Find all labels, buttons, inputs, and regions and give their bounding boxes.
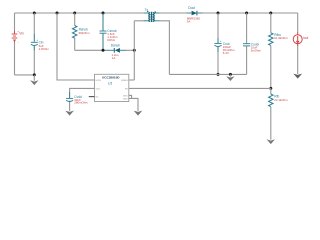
node Csnub top junction (102, 12, 105, 15)
node Coutx junction (245, 12, 248, 15)
diode Dsnub (105, 43, 135, 60)
node drain column snubber junction (133, 49, 136, 52)
wire Rfbu column (270, 13, 272, 33)
svg-text:Iout: Iout (303, 36, 308, 40)
svg-text:VDD: VDD (96, 88, 101, 90)
capacitor Cout (214, 43, 221, 46)
node feedback divider top junction (269, 12, 272, 15)
wire input bottom rail (15, 74, 35, 76)
wire output bottom rail (169, 73, 246, 75)
wire VDD line (70, 88, 95, 92)
svg-text:HVIN: HVIN (96, 80, 102, 82)
wire Iout column (297, 13, 299, 32)
op-amp U1 UCC28910 flyback controller IC (95, 74, 129, 101)
wire NC stub (89, 96, 95, 98)
wire top rail secondary to output (158, 12, 187, 14)
node input rail / Cin junction (33, 12, 36, 15)
wire Rsnub column (74, 13, 76, 26)
ground input (30, 80, 38, 85)
svg-text:2.9Ohm: 2.9Ohm (39, 47, 50, 51)
capacitor Csnub (100, 31, 107, 33)
wire top rail input section (15, 12, 145, 14)
wire GND pins loop (129, 95, 132, 98)
wire stub output ground (229, 74, 231, 76)
svg-text:GND: GND (123, 95, 128, 97)
voltage source Vin (12, 30, 24, 45)
wire Coutx column (246, 13, 248, 43)
svg-text:61.9kOhm: 61.9kOhm (274, 36, 288, 40)
wire stub to input ground (33, 75, 35, 81)
capacitor Coutx (243, 44, 250, 46)
svg-text:Dout: Dout (188, 6, 195, 10)
wire Cin column (33, 13, 35, 34)
svg-text:1A: 1A (112, 56, 116, 60)
svg-text:22.1kOhm: 22.1kOhm (274, 98, 288, 102)
wire drain column (133, 21, 135, 80)
svg-text:280mOhm: 280mOhm (74, 101, 88, 105)
node HV line junction (56, 12, 59, 15)
wire snubber row (75, 49, 105, 51)
wire secondary return column (160, 21, 170, 75)
wire Cout column (217, 13, 219, 38)
svg-text:GND: GND (123, 98, 128, 100)
ground output (226, 76, 234, 81)
node Cout bottom junction (217, 73, 220, 76)
wire Vin column (14, 13, 16, 31)
svg-text:66kOhm: 66kOhm (79, 31, 91, 35)
svg-text:6.3V: 6.3V (223, 51, 229, 55)
node input ground junction (33, 73, 36, 76)
node Csnub bottom junction (102, 49, 105, 52)
svg-text:U1: U1 (108, 82, 113, 86)
wire Csnub column (102, 13, 104, 31)
svg-text:UCC28910D: UCC28910D (102, 75, 120, 79)
node Cout junction (217, 12, 220, 15)
transformer Tx (144, 8, 160, 22)
resistor Rfb (269, 94, 273, 107)
svg-text:Tx: Tx (145, 8, 149, 12)
svg-text:5mOhm: 5mOhm (251, 49, 262, 53)
svg-text:DRAIN: DRAIN (121, 79, 128, 82)
svg-text:Vin: Vin (19, 31, 24, 35)
current source Iout (293, 32, 302, 46)
node FB junction (269, 87, 272, 90)
svg-text:3A: 3A (187, 20, 191, 24)
capacitor Cin (31, 42, 38, 45)
ground feedback divider (267, 139, 275, 144)
resistor Rfbu (269, 33, 273, 46)
wire HV startup line to IC pin (57, 13, 95, 80)
ground Cvdd (65, 111, 74, 116)
node Rsnub junction (73, 12, 76, 15)
svg-text:0Ohm: 0Ohm (107, 38, 115, 42)
wire Cvdd column (69, 92, 71, 98)
svg-text:NC: NC (96, 97, 100, 99)
wire primary bottom lead (134, 20, 144, 22)
wire FB line (129, 87, 271, 89)
wire DRAIN stub (129, 79, 135, 81)
svg-text:Dsnub: Dsnub (111, 43, 120, 47)
ground Iout (293, 74, 302, 79)
ground IC (134, 111, 143, 116)
svg-text:-: - (18, 40, 19, 44)
resistor Rsnub (72, 26, 76, 39)
svg-text:+: + (220, 39, 222, 43)
node output ground junction (229, 73, 232, 76)
diode Dout (187, 6, 203, 24)
capacitor Cvdd (66, 98, 73, 101)
wire Rfb column (270, 88, 272, 94)
wire output rail after diode (202, 12, 298, 14)
